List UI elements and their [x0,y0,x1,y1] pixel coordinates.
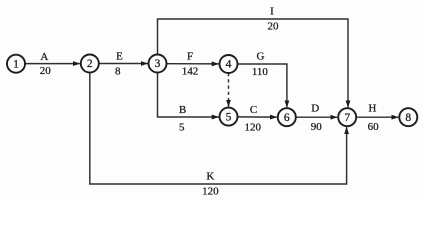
svg-text:110: 110 [252,66,269,78]
svg-text:8: 8 [115,66,121,78]
svg-text:120: 120 [202,186,219,198]
svg-text:G: G [257,51,265,63]
svg-text:3: 3 [155,58,161,70]
svg-text:142: 142 [182,66,199,78]
svg-text:A: A [40,51,48,63]
svg-text:F: F [187,51,193,63]
svg-text:1: 1 [13,58,19,70]
svg-text:20: 20 [40,65,52,77]
svg-text:6: 6 [284,112,290,124]
svg-text:4: 4 [226,59,232,71]
svg-text:5: 5 [226,111,232,123]
svg-text:E: E [116,51,123,63]
svg-text:120: 120 [244,121,261,133]
svg-text:D: D [311,103,319,115]
svg-text:8: 8 [405,112,411,124]
svg-text:C: C [250,104,257,116]
svg-text:B: B [179,104,186,116]
svg-text:2: 2 [87,58,93,70]
svg-text:20: 20 [268,21,280,33]
svg-text:5: 5 [179,121,185,133]
svg-text:K: K [206,171,214,183]
svg-text:H: H [368,103,376,115]
svg-text:90: 90 [311,121,323,133]
svg-text:7: 7 [344,112,350,124]
svg-text:I: I [270,6,274,18]
svg-text:60: 60 [368,121,380,133]
